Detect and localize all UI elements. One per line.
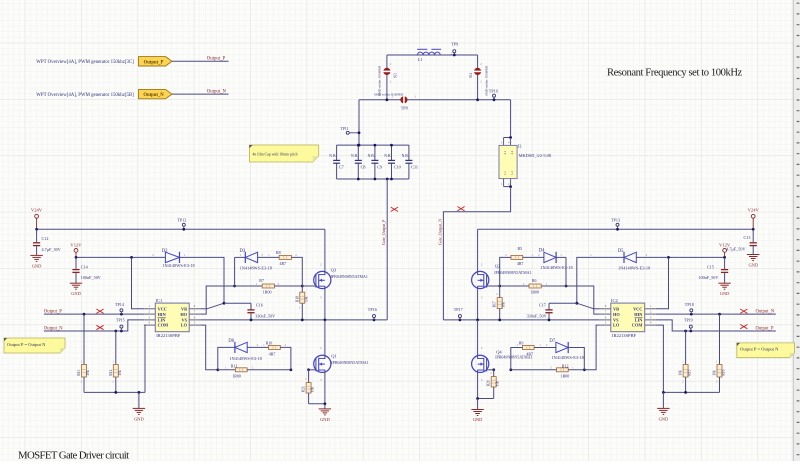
port Output_P <box>139 57 173 66</box>
resistor R14 10k pulldown <box>115 331 117 365</box>
svg-text:GND: GND <box>320 417 330 422</box>
svg-text:10k: 10k <box>311 387 315 393</box>
junction HO row <box>233 285 236 288</box>
wire J2 bottom pin tie <box>503 179 505 187</box>
svg-text:V12V: V12V <box>719 242 731 247</box>
svg-text:1.1: 1.1 <box>503 171 507 175</box>
svg-text:Output_P: Output_P <box>207 57 226 62</box>
wire VS bus (left) <box>200 319 387 321</box>
svg-text:TP8: TP8 <box>401 105 408 110</box>
wire COM down (left) <box>143 325 146 392</box>
wire LIN row (left) <box>44 320 144 331</box>
wire cap bank left edge <box>336 145 338 160</box>
wire bus to capacitor bank <box>358 100 360 145</box>
svg-text:1R00: 1R00 <box>530 290 539 295</box>
wire D3 anode to R8 <box>258 256 280 258</box>
wire tank bottom bus <box>359 99 511 101</box>
wire left V24V bus <box>37 228 325 230</box>
svg-text:C11: C11 <box>411 165 418 170</box>
svg-text:Resonant Frequency set to 100k: Resonant Frequency set to 100kHz <box>607 68 743 79</box>
svg-text:VCC: VCC <box>633 307 642 312</box>
junction TP10 <box>493 98 496 101</box>
wire tank left vertical <box>386 55 388 100</box>
svg-text:N.B.: N.B. <box>384 154 391 158</box>
svg-text:TP16: TP16 <box>368 307 377 312</box>
svg-text:10k: 10k <box>679 370 683 376</box>
svg-text:1.2: 1.2 <box>510 171 514 175</box>
junction gate node Q4 <box>492 368 495 371</box>
svg-text:D7: D7 <box>549 339 555 344</box>
svg-text:TP13: TP13 <box>611 217 620 222</box>
resistor R16 10k pulldown <box>719 314 721 364</box>
solder jumper TP8 in series on bus <box>400 96 407 103</box>
svg-text:VB: VB <box>613 307 619 312</box>
wire inductor lead <box>387 54 478 56</box>
svg-text:C17: C17 <box>539 303 546 308</box>
svg-text:10k: 10k <box>502 302 506 308</box>
junction cap feed <box>358 144 361 147</box>
svg-text:WPT Overview[4A], PWM generato: WPT Overview[4A], PWM generator 150khz[5… <box>36 93 134 98</box>
svg-text:1R00: 1R00 <box>232 374 241 379</box>
capacitor C14 <box>75 257 77 269</box>
svg-text:1N4148WS-E3-18: 1N4148WS-E3-18 <box>552 355 584 360</box>
wire tank right vertical <box>477 55 479 100</box>
ground below C15 <box>718 282 730 284</box>
wire R10 to low gate node <box>280 347 291 369</box>
svg-text:N.B.: N.B. <box>402 154 409 158</box>
svg-text:LIN: LIN <box>635 317 644 322</box>
svg-text:Q3: Q3 <box>331 268 337 273</box>
wire Gate_Output_P from cap bank to left VS bus <box>386 179 388 320</box>
junction cap bank output <box>386 178 389 181</box>
wire COM down (right) <box>656 325 664 392</box>
svg-text:1R00: 1R00 <box>561 374 570 379</box>
capacitor C12 <box>36 229 38 242</box>
svg-text:IPB049N08N5ATMA1: IPB049N08N5ATMA1 <box>495 355 532 360</box>
svg-text:V24V: V24V <box>31 208 43 213</box>
MOSFET Q1 low side <box>309 369 317 371</box>
resistor R21 10k gate-source low <box>308 370 310 383</box>
junction tank left <box>386 98 389 101</box>
svg-text:C10: C10 <box>394 165 401 170</box>
svg-text:VS: VS <box>182 317 188 322</box>
ground right driver <box>662 392 664 408</box>
wire low bypass up branch right <box>568 348 584 370</box>
svg-text:2.1: 2.1 <box>503 150 507 154</box>
ground left driver <box>138 392 140 408</box>
resistor R10 4R7 low bypass <box>269 345 281 349</box>
wire D7 to R9 <box>534 347 556 349</box>
svg-text:R18: R18 <box>295 296 299 302</box>
svg-text:TP14: TP14 <box>115 302 125 307</box>
svg-text:IPB049N08N5ATMA1: IPB049N08N5ATMA1 <box>494 270 531 275</box>
svg-text:HIN: HIN <box>634 312 643 317</box>
svg-text:R15: R15 <box>688 369 692 375</box>
diagonal VB wire to bootstrap node <box>200 308 207 310</box>
svg-text:IPB049N08N5ATMA1: IPB049N08N5ATMA1 <box>331 360 368 365</box>
wire D2 cathode to VB node <box>180 257 225 303</box>
wire HIN row (right) <box>656 313 776 315</box>
wire VB node to C17 <box>549 302 577 304</box>
resistor R9 4R7 low bypass <box>522 346 534 350</box>
note: Output P = Output N (left) <box>4 338 65 353</box>
resistor R6 1R00 gate <box>541 285 566 287</box>
svg-text:10k: 10k <box>304 296 308 302</box>
svg-text:R16: R16 <box>722 369 726 375</box>
MOSFET Q4 low side <box>486 369 494 371</box>
svg-text:10k: 10k <box>496 381 500 387</box>
svg-text:C7: C7 <box>339 165 344 170</box>
svg-text:TP11: TP11 <box>341 127 349 131</box>
svg-text:TP18: TP18 <box>685 302 694 307</box>
svg-text:V12V: V12V <box>70 242 82 247</box>
wire cap bank bottom rail <box>337 178 409 180</box>
MOSFET Q2 high side <box>486 285 500 287</box>
capacitor C7 (N.B.) <box>333 159 340 161</box>
no-ERC on right Output_N wire <box>740 309 747 313</box>
svg-text:2.2: 2.2 <box>510 150 514 154</box>
svg-text:V24V: V24V <box>748 208 760 213</box>
wire right V24V bus <box>478 228 754 230</box>
junction R9 drop <box>509 368 512 371</box>
svg-text:LO: LO <box>613 323 620 328</box>
diagonal VB wire to bootstrap node right <box>594 308 600 310</box>
solder jumper SJ4 <box>474 68 481 75</box>
junction VB node right <box>575 302 578 305</box>
svg-text:WPT Overview[4A], PWM generato: WPT Overview[4A], PWM generator 150khz[3… <box>36 60 134 65</box>
resistor R20 10k gate-source low <box>493 370 495 377</box>
svg-text:100nF_50V: 100nF_50V <box>698 275 718 280</box>
svg-text:GND: GND <box>134 416 144 421</box>
wire cap bank top rail <box>337 144 409 146</box>
wire R21 to source/GND node <box>309 403 325 405</box>
svg-text:Gate_Output_P: Gate_Output_P <box>381 219 386 245</box>
svg-text:VB: VB <box>181 307 187 312</box>
note: Output P = Output N (right) <box>737 343 795 358</box>
svg-text:R11: R11 <box>231 363 238 368</box>
svg-text:TP9: TP9 <box>451 42 458 47</box>
wire R5 to gate node right <box>500 257 511 286</box>
svg-text:IR2213SPBF: IR2213SPBF <box>156 333 181 338</box>
svg-text:D5: D5 <box>618 249 624 254</box>
junction low gate row left <box>216 368 219 371</box>
capacitor C17 bootstrap <box>548 303 550 310</box>
svg-text:SJ4: SJ4 <box>469 73 473 78</box>
svg-text:TP19: TP19 <box>684 317 693 322</box>
wire V12V node (left) <box>76 256 165 258</box>
svg-text:R9: R9 <box>519 340 524 345</box>
wire VCC riser (left) <box>132 257 145 308</box>
wire VS bus (right) <box>443 319 599 321</box>
svg-text:R14: R14 <box>109 369 113 375</box>
wire V12V node (right) <box>636 256 724 258</box>
svg-text:HO: HO <box>180 312 187 317</box>
svg-text:SMD solder JUMPER: SMD solder JUMPER <box>377 65 381 96</box>
svg-text:1N4148WS-E3-18: 1N4148WS-E3-18 <box>540 265 572 270</box>
junction HO row right <box>565 285 568 288</box>
note: 4n film Cap with 10mm pitch <box>249 145 318 162</box>
resistor R18 10k gate-source <box>301 286 303 292</box>
capacitor C8 (N.B.) <box>357 145 359 160</box>
svg-text:COM: COM <box>632 323 643 328</box>
wire cap bank right edge <box>408 145 410 160</box>
svg-text:R20: R20 <box>487 380 491 386</box>
svg-text:R17: R17 <box>493 301 497 307</box>
svg-text:GND: GND <box>71 291 81 296</box>
svg-text:C14: C14 <box>81 264 89 269</box>
svg-text:GND: GND <box>720 291 730 296</box>
resistor R5 4R7 bypass <box>511 255 523 259</box>
junction VB node <box>223 302 226 305</box>
svg-text:C9: C9 <box>377 165 382 170</box>
wire bypass branch up (right) <box>565 257 567 286</box>
capacitor C13 <box>752 229 754 242</box>
svg-text:330nF_50V: 330nF_50V <box>255 314 275 319</box>
svg-text:GND: GND <box>659 416 669 421</box>
svg-text:VS: VS <box>613 317 619 322</box>
svg-text:Output_N: Output_N <box>207 90 227 95</box>
resistor R13 10k pulldown <box>83 314 85 364</box>
window edge strip with ruler ticks <box>794 0 800 461</box>
svg-text:HO: HO <box>613 312 620 317</box>
wire D6 anode to R10 <box>247 346 268 348</box>
svg-text:N.B.: N.B. <box>351 154 358 158</box>
svg-text:N.B.: N.B. <box>368 154 375 158</box>
gate driver IC1 IR2213SPBF <box>144 308 155 310</box>
svg-text:1N4148WS-E3-18: 1N4148WS-E3-18 <box>162 263 194 268</box>
junction R10 drop <box>290 368 293 371</box>
svg-text:Output P = Output N: Output P = Output N <box>740 347 779 352</box>
wire LO down to low gate row (right) <box>584 325 599 370</box>
svg-text:4n film Cap with 10mm pitch: 4n film Cap with 10mm pitch <box>253 152 298 156</box>
svg-text:C12: C12 <box>42 236 49 241</box>
svg-text:4R7: 4R7 <box>269 352 276 357</box>
svg-text:R12: R12 <box>562 363 569 368</box>
wire Gate_Output_N from J2 to right VS bus <box>443 187 510 320</box>
svg-text:HIN: HIN <box>158 312 167 317</box>
svg-text:TP12: TP12 <box>177 217 186 222</box>
wire left COM/GND bus <box>84 391 145 393</box>
wire VB node to C16 <box>224 302 251 304</box>
svg-text:4R7: 4R7 <box>280 261 287 266</box>
svg-text:1N4148WS-E3-18: 1N4148WS-E3-18 <box>240 266 272 271</box>
svg-text:Output P = Output N: Output P = Output N <box>7 342 46 347</box>
svg-text:Q2: Q2 <box>495 264 501 269</box>
svg-text:4R7: 4R7 <box>517 261 524 266</box>
svg-text:Output_P: Output_P <box>144 60 164 65</box>
svg-text:GND: GND <box>32 263 42 268</box>
no-ERC on Output_N wire <box>96 325 103 329</box>
svg-text:R8: R8 <box>276 250 281 255</box>
resistor R11 1R00 low gate <box>218 369 236 371</box>
no-ERC marker on Gate_Output_P <box>391 207 398 211</box>
wire bypass branch up (left) <box>234 257 236 286</box>
svg-text:330nF_50V: 330nF_50V <box>527 314 547 319</box>
wire LO down to low gate row (left) <box>200 325 218 370</box>
svg-text:L1: L1 <box>418 57 423 62</box>
svg-text:VCC: VCC <box>158 307 167 312</box>
gate driver IC2 IR2213SPBF <box>600 308 611 310</box>
svg-text:R6: R6 <box>532 278 537 283</box>
svg-text:Output_N: Output_N <box>143 93 164 98</box>
MOSFET Q3 high side <box>302 285 316 287</box>
wire J2 top pin tie <box>504 137 511 139</box>
svg-text:IC1: IC1 <box>156 298 163 303</box>
capacitor C15 <box>724 257 726 269</box>
svg-text:J2: J2 <box>518 144 522 149</box>
wire HO to gate row (left) <box>200 286 234 314</box>
svg-text:Q1: Q1 <box>331 353 337 358</box>
svg-text:100nF_50V: 100nF_50V <box>81 275 101 280</box>
svg-text:1N4148WS-E3-18: 1N4148WS-E3-18 <box>618 266 650 271</box>
capacitor C11 (N.B.) <box>405 159 412 161</box>
junction TP9 <box>453 54 456 57</box>
svg-text:SMD solder JUMPER: SMD solder JUMPER <box>374 92 404 96</box>
resistor R12 1R00 low gate <box>568 369 584 371</box>
junction gate node Q3 <box>301 285 304 288</box>
ground below Q4 <box>477 399 479 410</box>
svg-text:1N4148WS-E3-18: 1N4148WS-E3-18 <box>230 356 262 361</box>
svg-text:TP17: TP17 <box>454 307 463 312</box>
wire bus down to J2 <box>510 100 512 138</box>
svg-text:10k: 10k <box>86 370 90 376</box>
ground below C12 <box>30 254 42 256</box>
svg-text:GND: GND <box>473 417 483 422</box>
wire D5 cathode to VB node (right) <box>577 257 624 303</box>
svg-text:D6: D6 <box>228 339 234 344</box>
wire R20 to source/GND node right <box>478 398 494 400</box>
no-ERC on Output_P wire <box>96 309 103 313</box>
ground below C13 <box>747 254 759 256</box>
svg-text:TP15: TP15 <box>116 317 125 322</box>
junction gate node Q2 <box>498 285 501 288</box>
solder jumper SJ3 <box>383 68 390 75</box>
junction tank right <box>476 98 479 101</box>
svg-text:MOSFET Gate Driver circuit: MOSFET Gate Driver circuit <box>18 450 129 462</box>
junction low gate row right <box>583 368 586 371</box>
svg-text:R13: R13 <box>77 369 81 375</box>
wire VCC riser (right) <box>656 257 669 308</box>
svg-text:10k: 10k <box>713 370 717 376</box>
ground below Q1 <box>324 404 326 409</box>
svg-text:R5: R5 <box>518 246 523 251</box>
wire HO to gate row (right) <box>566 286 600 314</box>
svg-text:LO: LO <box>181 323 188 328</box>
wire HIN row (left) <box>44 313 144 315</box>
svg-text:TP10: TP10 <box>489 89 498 94</box>
wire from port Output_P <box>172 60 229 62</box>
svg-text:4.7µF_50V: 4.7µF_50V <box>42 247 61 252</box>
wire low bypass up branch <box>218 347 235 369</box>
wire LIN row (right) <box>656 320 776 331</box>
wire D4 to R5 <box>523 256 544 258</box>
resistor R17 10k gate-source <box>499 286 501 298</box>
svg-text:IPB049N08N5ATMA1: IPB049N08N5ATMA1 <box>331 274 368 279</box>
svg-text:C8: C8 <box>361 165 366 170</box>
svg-text:N.B.: N.B. <box>329 154 336 158</box>
svg-text:COM: COM <box>158 323 169 328</box>
ground below C14 <box>70 282 82 284</box>
wire right COM/GND bus <box>663 391 719 393</box>
wire R8 to gate node <box>291 257 302 286</box>
resistor R7 1R00 gate <box>235 285 263 287</box>
svg-text:SJ3: SJ3 <box>394 73 398 78</box>
port Output_N <box>139 89 173 98</box>
svg-text:R21: R21 <box>302 386 306 392</box>
svg-text:LIN: LIN <box>158 317 167 322</box>
junction gate node Q1 <box>307 368 310 371</box>
capacitor C9 (N.B.) <box>374 145 376 160</box>
svg-text:IR2213SPBF: IR2213SPBF <box>612 333 637 338</box>
resistor R8 4R7 bypass <box>279 255 291 259</box>
svg-text:GND: GND <box>748 262 758 267</box>
wire from port Output_N <box>172 93 229 95</box>
svg-text:IC2: IC2 <box>611 298 618 303</box>
svg-text:C15: C15 <box>707 264 714 269</box>
capacitor C16 bootstrap <box>250 303 252 310</box>
inductor L1 <box>417 52 440 55</box>
wire R9 to low gate node right <box>511 348 523 370</box>
svg-text:C16: C16 <box>256 303 263 308</box>
no-ERC on right Output_P wire <box>740 324 747 328</box>
svg-text:1R00: 1R00 <box>263 290 272 295</box>
svg-text:10k: 10k <box>118 370 122 376</box>
svg-text:C13: C13 <box>744 235 751 240</box>
svg-text:R7: R7 <box>259 278 264 283</box>
svg-text:R10: R10 <box>266 340 273 345</box>
svg-text:Gate_Output_N: Gate_Output_N <box>437 219 442 245</box>
no-ERC marker on Gate_Output_N <box>457 207 464 211</box>
terminal block J2 <box>503 138 505 146</box>
resistor R15 10k pulldown <box>685 331 687 365</box>
capacitor C10 (N.B.) <box>391 145 393 160</box>
